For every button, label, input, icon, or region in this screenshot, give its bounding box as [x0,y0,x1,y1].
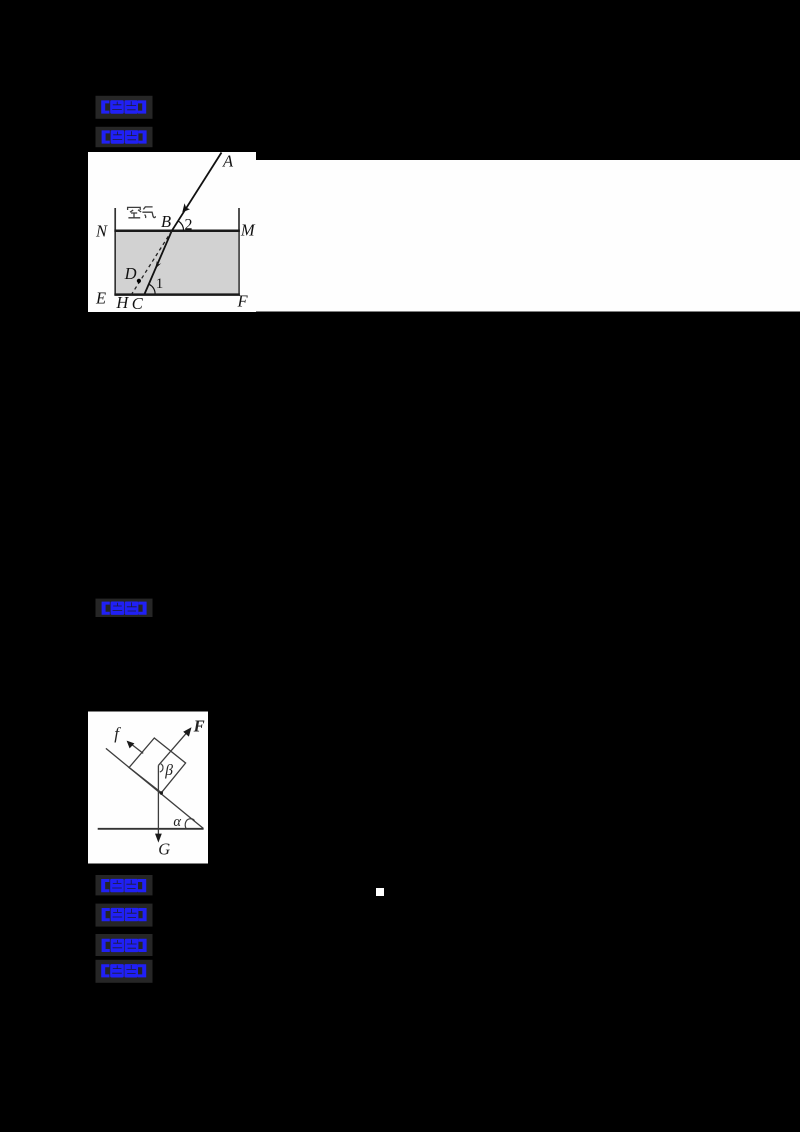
label blue 【解析】 [96,127,153,147]
incline line [106,748,203,828]
svg-text:1: 1 [156,276,164,292]
gravity line G [157,765,159,837]
angle 1 arc at C [149,284,155,294]
figure 1 white band (full width strip of embedded image) [256,160,800,312]
angle 2 arc at B [178,221,183,231]
svg-text:C: C [132,294,144,313]
angle alpha arc [185,819,194,829]
label blue 【分析】 [96,934,153,956]
svg-text:H: H [115,293,129,312]
bucket right wall M-F [238,208,240,295]
friction line f [131,744,144,754]
svg-text:B: B [161,212,171,231]
arrowhead G [155,834,162,843]
figure 2 white box [88,712,208,864]
arrowhead f [127,741,135,749]
arrowhead on incident ray [182,203,190,212]
arrowhead F [183,727,191,736]
small white square bullet [376,888,384,896]
text 空气 (air) [128,207,156,218]
svg-text:2: 2 [185,216,193,233]
arrowhead on refracted ray [155,261,161,269]
label blue 【点睛】 [96,599,153,617]
svg-text:β: β [164,762,173,779]
corner junction dot [160,791,163,794]
svg-text:D: D [124,264,137,283]
svg-text:F: F [193,716,205,735]
block square [129,738,186,793]
svg-text:M: M [240,221,256,240]
svg-text:G: G [158,839,170,858]
svg-text:F: F [237,292,249,311]
svg-text:E: E [95,288,106,307]
ground line [98,828,204,830]
figure 1 white tab (top-left of embedded image) [88,152,256,312]
force line F [158,731,188,766]
bucket bottom line E-F [114,293,239,296]
svg-text:N: N [95,221,108,240]
angle beta arc [160,764,163,772]
refracted ray B-C [145,231,172,294]
label blue 【专题】 [96,904,153,927]
label blue 【答案】 [96,96,153,119]
dashed extension B-H [130,231,171,296]
dot D [137,279,141,283]
water fill [116,232,238,294]
water surface line N-M [114,230,239,233]
label blue 【解答】 [96,960,153,983]
svg-text:A: A [222,151,234,170]
label blue 【考点】 [96,875,153,895]
incident ray A-B [172,153,222,231]
bucket left wall N-E [114,208,116,295]
svg-text:α: α [173,814,181,830]
